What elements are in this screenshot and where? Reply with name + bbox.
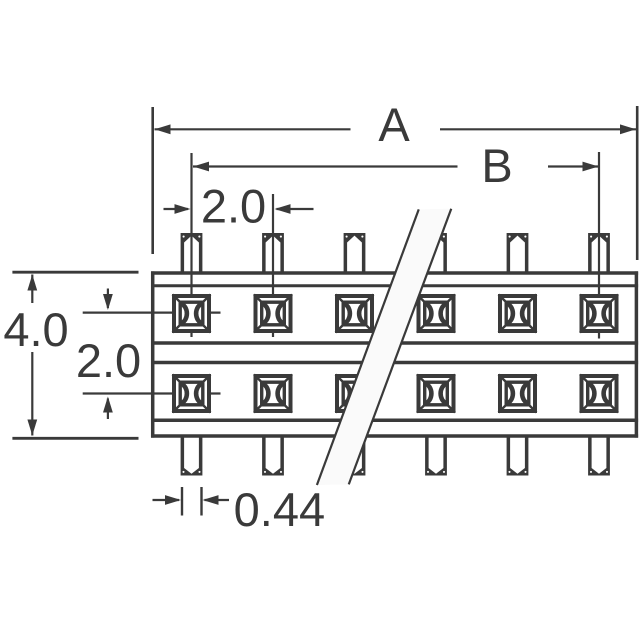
contact row2 pos1	[173, 375, 211, 413]
dimension 0.44 tick right	[200, 487, 202, 516]
svg-text:A: A	[378, 98, 410, 151]
svg-text:4.0: 4.0	[3, 303, 68, 356]
pin P3 top post	[344, 233, 366, 273]
dimension 4.0 line	[31, 275, 33, 436]
dimension 0.44 left arrow	[153, 499, 180, 501]
contact row2 pos3	[336, 375, 374, 413]
pin P5 top post	[507, 233, 529, 273]
dimension 4.0 extension line top	[12, 271, 138, 274]
pin P4 bottom post	[425, 437, 447, 476]
pin P6 top post	[588, 233, 610, 273]
contact row1 pos2	[254, 295, 292, 333]
pin P4 top post	[425, 233, 447, 273]
center line row1 horizontal	[83, 312, 221, 314]
dimension 4.0 extension line bottom	[12, 437, 138, 440]
dimension B line	[193, 165, 599, 167]
dimension B arrow left	[193, 162, 209, 172]
center line pin2 vertical	[272, 194, 274, 337]
pin P6 bottom post	[588, 437, 610, 476]
connector body outline	[151, 271, 638, 437]
dimension A arrow right	[620, 124, 636, 134]
contact row2 pos4	[417, 375, 455, 413]
contact row1 pos3	[336, 295, 374, 333]
pin P5 bottom post	[507, 437, 529, 476]
svg-text:0.44: 0.44	[234, 483, 325, 536]
center line pin1 vertical (B left extension)	[190, 153, 192, 337]
center line pin6 vertical (B right extension)	[598, 152, 600, 339]
pin P3 bottom post	[344, 437, 366, 476]
dimension 2.0 pitch right arrow	[277, 208, 314, 210]
dimension 2.0 row spacing bottom arrow	[107, 399, 109, 420]
contact row2 pos2	[254, 375, 292, 413]
contact row2 pos5	[499, 375, 537, 413]
break band (white)	[317, 209, 451, 485]
pin P1 bottom post	[181, 437, 203, 476]
break line right	[349, 209, 452, 485]
contact row1 pos4	[417, 295, 455, 333]
pin P2 top post	[262, 233, 284, 273]
pin P2 bottom post	[262, 437, 284, 476]
dimension 2.0 pitch left arrow	[164, 208, 189, 210]
dimension A arrow left	[155, 124, 171, 134]
pin P1 top post	[181, 233, 203, 273]
break line left	[317, 209, 419, 485]
svg-text:B: B	[481, 139, 512, 192]
contact row1 pos1	[173, 295, 211, 333]
contact row1 pos6	[580, 295, 618, 333]
dimension 4.0 arrow up	[27, 275, 37, 291]
dimension A line	[155, 128, 637, 130]
contact row1 pos5	[499, 295, 537, 333]
center line row2 horizontal	[83, 392, 221, 394]
dimension B arrow right	[583, 162, 599, 172]
dimension 0.44 tick left	[181, 487, 183, 516]
svg-text:2.0: 2.0	[201, 180, 266, 233]
svg-text:2.0: 2.0	[76, 334, 141, 387]
dimension 0.44 right arrow	[205, 499, 230, 501]
dimension A extension line right	[636, 106, 639, 260]
dimension A extension line left	[151, 107, 154, 254]
contact row2 pos6	[580, 375, 618, 413]
dimension 4.0 arrow down	[27, 420, 37, 436]
dimension 2.0 row spacing top arrow	[107, 289, 109, 309]
